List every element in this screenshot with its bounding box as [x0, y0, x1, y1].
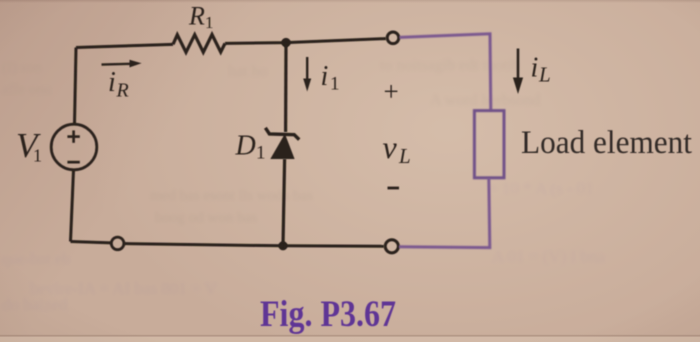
label iL	[531, 52, 551, 86]
wire: diode branch vertical	[283, 43, 286, 246]
svg-text:= 10 * A (s - 01: = 10 * A (s - 01	[488, 179, 594, 198]
svg-text:Load element: Load element	[521, 125, 692, 161]
junction dot bottom node	[278, 241, 287, 250]
label R1	[188, 2, 214, 32]
faint bleed-through text bottom left	[2, 188, 313, 314]
load element rectangle	[474, 111, 504, 178]
svg-text:(I) son: (I) son	[2, 60, 42, 76]
svg-text:i: i	[531, 52, 539, 83]
svg-text:1: 1	[205, 13, 214, 32]
label vL plus sign	[384, 77, 399, 107]
bottom page edge shading	[0, 335, 700, 342]
resistor R1	[173, 35, 225, 53]
label Load element	[521, 125, 692, 161]
label vL	[383, 129, 411, 168]
label V1	[16, 126, 42, 166]
current arrow iR	[102, 60, 142, 68]
svg-text:+: +	[384, 77, 399, 107]
svg-text:R: R	[188, 2, 205, 31]
svg-text:v: v	[383, 129, 398, 165]
faint bleed-through text row top middle	[228, 57, 540, 109]
svg-text:D: D	[235, 130, 256, 161]
svg-text:L: L	[538, 63, 551, 87]
current arrow i1	[303, 57, 311, 92]
svg-text:med bas esont lls woda bas: med bas esont lls woda bas	[150, 188, 313, 204]
faint bleed-through text row top left	[2, 60, 52, 98]
caption Fig. P3.67	[260, 294, 396, 335]
terminal: open circle bottom right	[385, 240, 398, 253]
label D1	[235, 130, 266, 163]
svg-text:affe onu: affe onu	[2, 82, 52, 98]
V1 plus sign	[67, 130, 79, 142]
svg-text:que-bot eb: que-bot eb	[2, 251, 70, 268]
svg-text:R: R	[116, 80, 129, 102]
wire: left vertical upper (top-left corner down to V1)	[75, 48, 77, 125]
voltage source V1	[51, 124, 97, 170]
label i1	[321, 61, 340, 95]
svg-text:Fig. P3.67: Fig. P3.67	[260, 294, 396, 335]
svg-text:to noitsagib edt tuotib: to noitsagib edt tuotib	[380, 57, 520, 74]
current arrow iL	[513, 49, 523, 95]
svg-text:hat ho: hat ho	[228, 63, 268, 80]
svg-text:A word herbsond: A word herbsond	[430, 92, 540, 109]
svg-text:i: i	[321, 61, 329, 92]
faint bleed-through text right middle	[488, 179, 605, 266]
V1 minus sign	[67, 161, 79, 164]
svg-text:boog od won bas: boog od won bas	[155, 210, 257, 226]
label vL minus sign	[388, 187, 400, 190]
svg-text:1: 1	[330, 74, 340, 95]
zener diode D1	[265, 128, 299, 159]
purple wire: load bottom to bottom-right terminal	[399, 178, 490, 248]
junction dot top node	[281, 38, 290, 47]
terminal: open circle bottom left	[111, 237, 124, 250]
purple wire: top right to load	[400, 34, 491, 111]
svg-text:do baized: do baized	[2, 295, 68, 314]
svg-text:1: 1	[33, 146, 42, 166]
wire: bottom horizontal left (corner to terminal to junction)	[71, 242, 284, 246]
wire: top horizontal left segment	[76, 44, 173, 47]
terminal: open circle top right	[387, 32, 399, 44]
wire: top horizontal right segment (resistor to terminal)	[225, 39, 386, 44]
wire: bottom horizontal (junction to bottom-right terminal)	[283, 244, 384, 248]
svg-text:1: 1	[256, 143, 266, 164]
label iR	[108, 67, 129, 102]
svg-text:A 01 = (V) I bna: A 01 = (V) I bna	[492, 247, 605, 266]
wire: left vertical lower (V1 down to bottom-left corner)	[71, 170, 74, 242]
svg-text:L: L	[398, 144, 411, 168]
svg-text:i: i	[108, 67, 116, 98]
